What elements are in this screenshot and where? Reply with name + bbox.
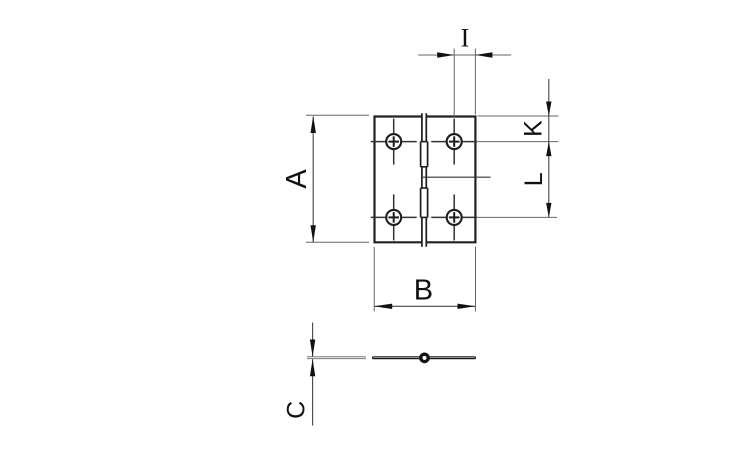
- knuckle division ticks: [421, 142, 428, 218]
- dimension B arrow right: [458, 304, 476, 309]
- bottom screw axis extension line right: [478, 216, 558, 218]
- screw top-right: [431, 119, 477, 165]
- hinge leaf right outline: [427, 117, 476, 243]
- hinge leaf left outline: [375, 117, 422, 243]
- dimension A line: [312, 117, 314, 243]
- svg-text:C: C: [282, 401, 310, 419]
- dimension I extension line right (hinge edge): [474, 49, 476, 115]
- dimension K/L arrow up at top screw axis: [546, 142, 551, 157]
- svg-text:L: L: [520, 172, 548, 186]
- dimension C line lower segment: [312, 359, 314, 425]
- svg-text:I: I: [461, 24, 470, 53]
- dimension I arrow left: [437, 52, 454, 57]
- knuckle pin strip narrow segments: [422, 113, 426, 247]
- side view pin circle: [421, 354, 428, 361]
- dimension C extension line bottom: [307, 358, 366, 360]
- svg-text:K: K: [519, 120, 547, 137]
- dimension A extension line bottom: [306, 241, 369, 243]
- dimension C extension line top: [307, 356, 366, 358]
- dimension B extension line right: [475, 247, 477, 312]
- dimension C line upper segment: [312, 323, 314, 357]
- dimension B line: [374, 305, 475, 307]
- screw bottom-left: [371, 194, 417, 240]
- knuckle barrel wide segments: [421, 142, 428, 218]
- dimension I line: [418, 54, 511, 56]
- screw bottom-right: [431, 194, 477, 240]
- svg-text:A: A: [281, 169, 313, 189]
- dimension I arrow right: [475, 52, 492, 57]
- side view plate (edge-on): [373, 357, 476, 359]
- dimension B extension line left: [373, 247, 375, 312]
- svg-text:B: B: [414, 275, 433, 307]
- dimension K arrow down to top edge: [546, 102, 551, 117]
- dimension A arrow bottom: [311, 225, 316, 242]
- dimension A extension line top: [306, 114, 369, 116]
- top screw axis extension line right: [478, 141, 559, 143]
- dimension A arrow top: [311, 116, 316, 133]
- dimension K-L line: [548, 79, 550, 217]
- dimension C arrow up: [310, 359, 315, 376]
- dimension I extension line left (screw axis): [453, 49, 455, 119]
- knuckle mid centerline to right: [423, 176, 491, 178]
- top edge extension line right: [478, 115, 559, 117]
- dimension C arrow down: [310, 340, 315, 357]
- screw top-left: [371, 119, 417, 165]
- dimension L arrow down at bottom screw axis: [546, 203, 551, 218]
- dimension B arrow left: [374, 304, 392, 309]
